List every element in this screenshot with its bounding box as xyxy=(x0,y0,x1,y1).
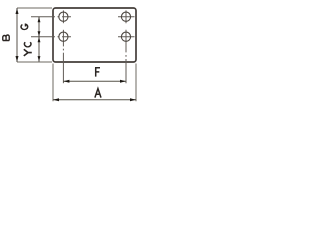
extension line bottom-right (A) xyxy=(135,64,137,102)
centerline vertical hole row2 left extends to F line xyxy=(62,30,64,47)
label YC: C (rotated) xyxy=(24,42,31,47)
arrow YC bottom xyxy=(38,56,41,62)
arrow G bottom xyxy=(38,31,41,37)
label A xyxy=(95,89,101,98)
centerline hole row1 right xyxy=(118,16,135,18)
dimension YC line xyxy=(38,37,40,62)
arrow F right xyxy=(120,80,126,83)
arrow A left xyxy=(53,98,59,101)
dimension A line xyxy=(53,99,136,101)
label YC: Y (rotated) xyxy=(24,49,32,56)
extension line top (B) xyxy=(17,7,52,9)
hole bottom-right xyxy=(121,32,130,41)
label B (rotated) xyxy=(3,35,9,41)
label F xyxy=(95,68,100,77)
dimension F line xyxy=(63,80,126,82)
arrow F left xyxy=(63,80,69,83)
dimension B line xyxy=(16,8,18,62)
hole top-right xyxy=(121,12,130,21)
centerline hole row1 left xyxy=(31,16,71,18)
hole bottom-left xyxy=(59,32,68,41)
centerline vertical hole row2 right extends to F line xyxy=(125,30,127,53)
hole top-left xyxy=(59,12,68,21)
extension line bottom-left (A) xyxy=(52,64,54,102)
label G (rotated) xyxy=(21,24,28,29)
dimension G line xyxy=(38,17,40,37)
plate outline xyxy=(53,8,136,62)
arrow YC top xyxy=(38,37,41,43)
centerline hole row2 left xyxy=(31,36,71,38)
centerline hole row2 right xyxy=(118,36,135,38)
arrow G top xyxy=(38,17,41,23)
arrow B bottom xyxy=(16,56,19,62)
centerline vertical hole row1 left xyxy=(62,10,64,23)
arrow B top xyxy=(16,8,19,14)
centerline vertical hole row1 right xyxy=(125,10,127,23)
extension line bottom (B) xyxy=(17,61,52,63)
arrow A right xyxy=(130,98,136,101)
